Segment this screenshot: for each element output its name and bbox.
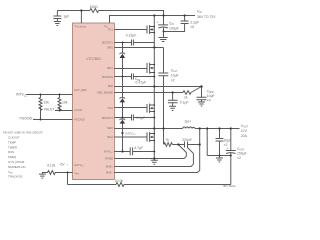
svg-text:VOUT: VOUT (241, 124, 249, 129)
svg-text:+: + (226, 146, 228, 150)
svg-text:CLKOUT: CLKOUT (8, 136, 20, 140)
svg-text:BOOST2: BOOST2 (102, 75, 113, 79)
svg-text:PGOOD: PGOOD (75, 117, 85, 121)
svg-text:1k: 1k (184, 96, 188, 100)
svg-text:100µF: 100µF (169, 27, 179, 31)
svg-text:100Ω: 100Ω (90, 5, 99, 9)
svg-text:LTC7821: LTC7821 (87, 57, 102, 61)
svg-text:×6: ×6 (190, 25, 194, 29)
svg-text:220nF: 220nF (182, 138, 192, 142)
svg-text:7k: 7k (165, 138, 169, 142)
svg-text:RUN: RUN (8, 150, 14, 154)
svg-text:EXT_REF: EXT_REF (75, 88, 87, 92)
svg-text:2.2µF: 2.2µF (190, 21, 199, 25)
svg-text:10µF: 10µF (224, 139, 232, 143)
svg-text:+: + (157, 21, 159, 25)
svg-text:×4: ×4 (207, 99, 211, 103)
svg-text:4.12k: 4.12k (47, 164, 56, 168)
svg-text:CIN: CIN (169, 22, 174, 27)
svg-text:1µF: 1µF (63, 15, 69, 19)
svg-text:BOOST1: BOOST1 (102, 40, 113, 44)
svg-text:TEMP: TEMP (8, 140, 16, 144)
svg-text:12V: 12V (241, 129, 248, 133)
svg-text:PGOOD →: PGOOD → (20, 117, 37, 121)
svg-text:TG2: TG2 (108, 106, 114, 110)
svg-text:INTVCC: INTVCC (16, 93, 27, 98)
svg-text:×2: ×2 (171, 79, 175, 83)
svg-text:PGND: PGND (105, 157, 113, 161)
svg-text:36V TO 72V: 36V TO 72V (197, 15, 216, 19)
svg-text:2µH: 2µH (185, 120, 192, 124)
svg-text:0.47µF: 0.47µF (135, 81, 146, 85)
svg-text:MID_SENSE: MID_SENSE (97, 91, 113, 95)
svg-text:10µF: 10µF (171, 74, 179, 78)
svg-text:HYS_PRGM: HYS_PRGM (8, 160, 25, 164)
svg-text:SNS+: SNS+ (106, 165, 114, 169)
svg-text:10k: 10k (62, 101, 68, 105)
svg-text:TIMER: TIMER (8, 145, 17, 149)
svg-text:6V →: 6V → (61, 163, 69, 167)
svg-text:BG2: BG2 (108, 135, 114, 139)
svg-text:PIN NOT USED IN THIS CIRCUIT:: PIN NOT USED IN THIS CIRCUIT: (3, 131, 43, 135)
svg-text:SW2: SW2 (107, 126, 113, 130)
svg-text:FREQ: FREQ (8, 155, 17, 159)
svg-text:FAULT: FAULT (75, 108, 84, 112)
svg-text:10k: 10k (44, 101, 50, 105)
svg-text:0.1µF: 0.1µF (136, 116, 145, 120)
svg-text:150µF: 150µF (237, 152, 247, 156)
svg-text:BOOST3: BOOST3 (102, 116, 113, 120)
svg-text:SNS–: SNS– (106, 171, 114, 175)
svg-text:CFLY: CFLY (171, 69, 178, 74)
svg-text:TRACK/SS: TRACK/SS (8, 175, 23, 179)
svg-text:20A: 20A (241, 134, 248, 138)
svg-text:MID: MID (108, 84, 113, 88)
svg-text:BG1: BG1 (108, 66, 114, 70)
svg-text:FAULT →: FAULT → (44, 108, 59, 112)
svg-text:0.1µF: 0.1µF (180, 101, 189, 105)
svg-text:VIN: VIN (197, 10, 202, 15)
svg-text:10µF: 10µF (207, 94, 215, 98)
svg-text:0.22µF: 0.22µF (126, 33, 137, 37)
svg-text:4.7µF: 4.7µF (134, 146, 143, 150)
svg-text:TG1: TG1 (108, 28, 114, 32)
svg-text:MODE/PLLIN: MODE/PLLIN (8, 165, 26, 169)
svg-text:10.0k: 10.0k (115, 179, 124, 183)
svg-text:×2: ×2 (237, 156, 241, 160)
svg-text:SW1: SW1 (107, 46, 113, 50)
svg-text:7821 TA01a: 7821 TA01a (223, 185, 236, 188)
